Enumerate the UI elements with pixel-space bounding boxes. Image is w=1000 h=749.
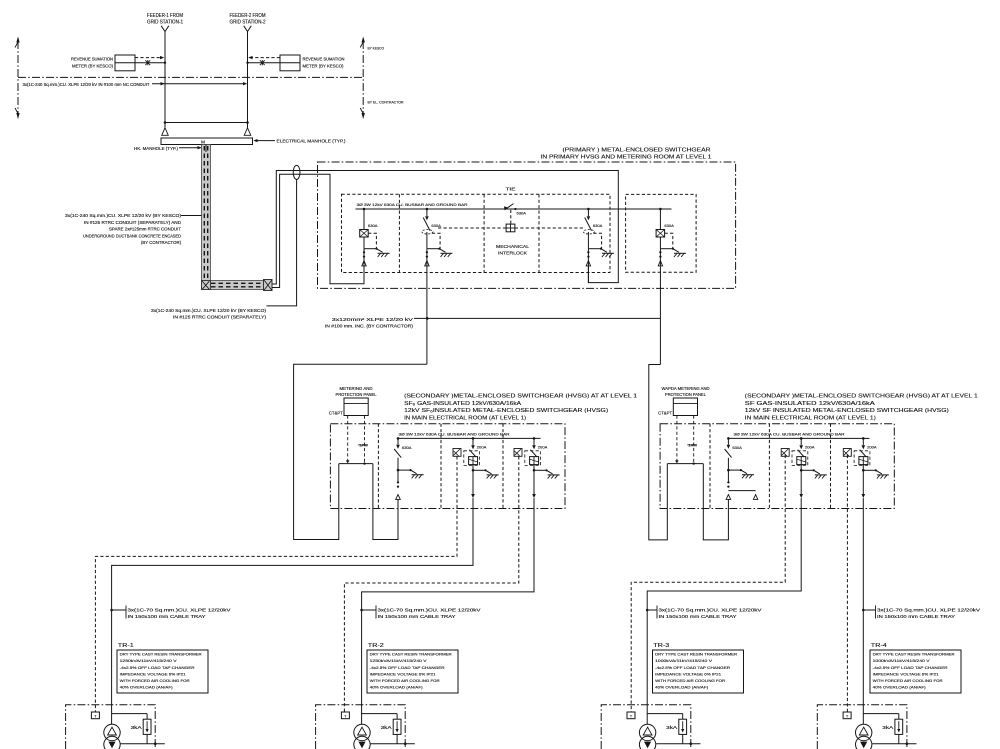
svg-text:IN 150x100 mm CABLE TRAY: IN 150x100 mm CABLE TRAY (877, 614, 955, 619)
svg-text:WITH FORCED AIR COOLING FOR: WITH FORCED AIR COOLING FOR (655, 678, 725, 683)
svg-text:WITH FORCED AIR COOLING FOR: WITH FORCED AIR COOLING FOR (370, 678, 440, 683)
svg-text:3x(1C-70 Sq.mm.)CU. XLPE 12/20: 3x(1C-70 Sq.mm.)CU. XLPE 12/20kV (128, 607, 231, 612)
svg-text:INTERLOCK: INTERLOCK (498, 250, 527, 255)
svg-text:FEEDER-1 FROM: FEEDER-1 FROM (147, 13, 183, 19)
svg-text:WITH FORCED AIR COOLING FOR: WITH FORCED AIR COOLING FOR (120, 678, 190, 683)
svg-text:(PRIMARY ) METAL-ENCLOSED SWIT: (PRIMARY ) METAL-ENCLOSED SWITCHGEAR (563, 147, 711, 153)
svg-text:3kA: 3kA (666, 725, 677, 730)
svg-text:40% OVERLOAD (AN/AF): 40% OVERLOAD (AN/AF) (370, 685, 424, 690)
svg-text:METER (BY KESCO): METER (BY KESCO) (72, 63, 114, 68)
svg-text:40% OVERLOAD (AN/AF): 40% OVERLOAD (AN/AF) (120, 685, 174, 690)
svg-text:ELECTRICAL MANHOLE (TYP.): ELECTRICAL MANHOLE (TYP.) (277, 138, 347, 143)
svg-text:DRY TYPE CAST RESIN TRANSFORME: DRY TYPE CAST RESIN TRANSFORMER (120, 652, 202, 657)
svg-text:SF GAS-INSULATED 12kV/630A/16: SF GAS-INSULATED 12kV/630A/16kA (745, 401, 875, 407)
svg-text:CT&PT: CT&PT (329, 410, 343, 415)
svg-text:IN #100 mm. INC. (BY CONTRACTO: IN #100 mm. INC. (BY CONTRACTOR) (325, 323, 414, 328)
svg-text:1250kVA/11kV/415/240 V: 1250kVA/11kV/415/240 V (120, 658, 177, 663)
svg-text:IMPEDANCE VOLTAGE 6% IP21: IMPEDANCE VOLTAGE 6% IP21 (873, 671, 940, 676)
svg-text:METER (BY KESCO): METER (BY KESCO) (303, 63, 345, 68)
svg-text:MECHANICAL: MECHANICAL (496, 244, 530, 249)
svg-text:630A: 630A (431, 223, 441, 228)
svg-text:IN 150x100 mm CABLE TRAY: IN 150x100 mm CABLE TRAY (128, 614, 206, 619)
svg-text:630A: 630A (368, 223, 378, 228)
svg-text:200A: 200A (477, 445, 487, 450)
svg-text:IMPEDANCE VOLTAGE 6% IP21: IMPEDANCE VOLTAGE 6% IP21 (655, 671, 722, 676)
svg-text:1250kVA/11kV/415/240 V: 1250kVA/11kV/415/240 V (370, 658, 427, 663)
svg-text:40% OVERLOAD (AN/AF): 40% OVERLOAD (AN/AF) (873, 685, 927, 690)
svg-text:3kA: 3kA (882, 725, 893, 730)
svg-text:IMPEDANCE VOLTAGE 6% IP21: IMPEDANCE VOLTAGE 6% IP21 (120, 671, 187, 676)
svg-text:630A: 630A (593, 223, 603, 228)
svg-text:1000kVA/11kV/415/240 V: 1000kVA/11kV/415/240 V (655, 658, 712, 663)
svg-text:3x(1C-240 Sq.mm.)CU. XLPE 12/2: 3x(1C-240 Sq.mm.)CU. XLPE 12/20 kV IN #1… (23, 82, 151, 87)
svg-text:-4x2.5% OFF LOAD TAP CHANGER: -4x2.5% OFF LOAD TAP CHANGER (655, 665, 730, 670)
svg-text:DRY TYPE CAST RESIN TRANSFORME: DRY TYPE CAST RESIN TRANSFORMER (370, 652, 452, 657)
svg-text:TR-2: TR-2 (368, 643, 384, 649)
svg-text:1#W: 1#W (359, 443, 369, 447)
svg-text:PROTECTION PANEL: PROTECTION PANEL (665, 392, 707, 397)
svg-text:IN PRIMARY HVSG AND METERING R: IN PRIMARY HVSG AND METERING ROOM AT LEV… (541, 154, 712, 160)
svg-text:-4x2.5% OFF LOAD TAP CHANGER: -4x2.5% OFF LOAD TAP CHANGER (120, 665, 195, 670)
svg-text:IN 150x100 mm CABLE TRAY: IN 150x100 mm CABLE TRAY (378, 614, 456, 619)
svg-text:IN MAIN ELECTRICAL ROOM (AT LE: IN MAIN ELECTRICAL ROOM (AT LEVEL 1) (404, 415, 526, 421)
svg-text:-4x2.5% OFF LOAD TAP CHANGER: -4x2.5% OFF LOAD TAP CHANGER (370, 665, 445, 670)
svg-text:BY KESCO: BY KESCO (368, 46, 385, 51)
svg-text:3Ø 3W 12kV 630A CU. BUSBAR AND: 3Ø 3W 12kV 630A CU. BUSBAR AND GROUND BA… (734, 431, 845, 436)
svg-text:12kV SF INSULATED METAL-ENCLO: 12kV SF INSULATED METAL-ENCLOSED SWITCHG… (745, 408, 949, 414)
svg-text:200A: 200A (867, 445, 877, 450)
svg-text:200A: 200A (805, 445, 815, 450)
svg-text:SF₆ GAS-INSULATED 12kV/630A/16: SF₆ GAS-INSULATED 12kV/630A/16kA (404, 401, 521, 407)
svg-text:40% OVERLOAD (AN/AF): 40% OVERLOAD (AN/AF) (655, 685, 709, 690)
svg-text:3Ø 3W 12kV 630A CU. BUSBAR AND: 3Ø 3W 12kV 630A CU. BUSBAR AND GROUND BA… (399, 431, 510, 436)
svg-text:TR-3: TR-3 (653, 643, 669, 649)
svg-text:IN MAIN ELECTRICAL ROOM (AT LE: IN MAIN ELECTRICAL ROOM (AT LEVEL 1) (745, 415, 876, 421)
svg-text:DRY TYPE CAST RESIN TRANSFORME: DRY TYPE CAST RESIN TRANSFORMER (873, 652, 955, 657)
svg-text:630A: 630A (402, 445, 412, 450)
svg-text:SPARE 2x#125mm RTRC CONDUIT: SPARE 2x#125mm RTRC CONDUIT (109, 227, 182, 232)
svg-text:WAPDA METERING AND: WAPDA METERING AND (662, 386, 710, 391)
svg-text:3x(1C-70 Sq.mm.)CU. XLPE 12/20: 3x(1C-70 Sq.mm.)CU. XLPE 12/20kV (877, 607, 980, 612)
svg-text:TR-1: TR-1 (118, 643, 134, 649)
svg-text:3x(1C-70 Sq.mm.)CU. XLPE 12/20: 3x(1C-70 Sq.mm.)CU. XLPE 12/20kV (378, 607, 481, 612)
svg-text:IN 150x100 mm CABLE TRAY: IN 150x100 mm CABLE TRAY (659, 614, 737, 619)
svg-text:630A: 630A (517, 211, 527, 216)
svg-text:(SECONDARY )METAL-ENCLOSED SWI: (SECONDARY )METAL-ENCLOSED SWITCHGEAR (H… (404, 394, 637, 400)
svg-text:630A: 630A (732, 445, 742, 450)
svg-text:630A: 630A (664, 223, 674, 228)
svg-text:3kA: 3kA (131, 725, 142, 730)
svg-text:BY EL. CONTRACTOR: BY EL. CONTRACTOR (368, 100, 404, 105)
svg-text:PROTECTION PANEL: PROTECTION PANEL (336, 392, 378, 397)
svg-text:3x120mm² XLPE 12/20 kV: 3x120mm² XLPE 12/20 kV (332, 317, 413, 322)
svg-text:3x(1C-240 Sq.mm.)CU. XLPE 12/2: 3x(1C-240 Sq.mm.)CU. XLPE 12/20 kV (BY K… (65, 213, 182, 218)
svg-text:3kA: 3kA (381, 725, 392, 730)
svg-text:(SECONDARY )METAL-ENCLOSED SWI: (SECONDARY )METAL-ENCLOSED SWITCHGEAR (H… (745, 394, 978, 400)
svg-text:3x(1C-70 Sq.mm.)CU. XLPE 12/20: 3x(1C-70 Sq.mm.)CU. XLPE 12/20kV (659, 607, 762, 612)
svg-text:CT&PT: CT&PT (658, 410, 672, 415)
svg-text:TIE: TIE (506, 186, 516, 191)
svg-text:UNDERGROUND DUCTBANK CONCRETE: UNDERGROUND DUCTBANK CONCRETE ENCASED (83, 233, 181, 238)
svg-text:DRY TYPE CAST RESIN TRANSFORME: DRY TYPE CAST RESIN TRANSFORMER (655, 652, 737, 657)
svg-text:IN #125 RTRC CONDUIT (SEPARATE: IN #125 RTRC CONDUIT (SEPARATELY) (173, 314, 267, 319)
svg-text:REVENUE SUMATION: REVENUE SUMATION (303, 57, 345, 62)
svg-text:IN #125 RTRC CONDUIT (SEPARATE: IN #125 RTRC CONDUIT (SEPARATELY) AND (84, 220, 181, 225)
svg-text:METERING AND: METERING AND (340, 386, 373, 391)
svg-text:REVENUE SUMATION: REVENUE SUMATION (71, 57, 113, 62)
svg-text:1#W: 1#W (688, 443, 698, 447)
svg-text:3x(1C-240 Sq.mm.)CU. XLPE 12/2: 3x(1C-240 Sq.mm.)CU. XLPE 12/20 kV (BY K… (151, 308, 267, 313)
svg-text:FEEDER-2 FROM: FEEDER-2 FROM (230, 13, 266, 19)
svg-text:-4x2.5% OFF LOAD TAP CHANGER: -4x2.5% OFF LOAD TAP CHANGER (873, 665, 948, 670)
svg-text:GRID STATION-2: GRID STATION-2 (230, 19, 266, 25)
svg-text:1000kVA/11kV/415/240 V: 1000kVA/11kV/415/240 V (873, 658, 930, 663)
svg-text:(BY CONTRACTOR): (BY CONTRACTOR) (141, 240, 182, 245)
svg-text:TR-4: TR-4 (871, 643, 888, 649)
svg-text:WITH FORCED AIR COOLING FOR: WITH FORCED AIR COOLING FOR (873, 678, 943, 683)
svg-text:12kV SF₆INSULATED METAL-ENCLOS: 12kV SF₆INSULATED METAL-ENCLOSED SWITCHG… (404, 408, 608, 414)
svg-text:IMPEDANCE VOLTAGE 6% IP21: IMPEDANCE VOLTAGE 6% IP21 (370, 671, 437, 676)
svg-text:GRID STATION-1: GRID STATION-1 (147, 19, 183, 25)
svg-text:HK. MANHOLE (TYP.): HK. MANHOLE (TYP.) (134, 146, 179, 151)
svg-text:3Ø 3W 12kV 630A CU. BUSBAR AND: 3Ø 3W 12kV 630A CU. BUSBAR AND GROUND BA… (357, 202, 468, 207)
svg-text:200A: 200A (538, 445, 548, 450)
